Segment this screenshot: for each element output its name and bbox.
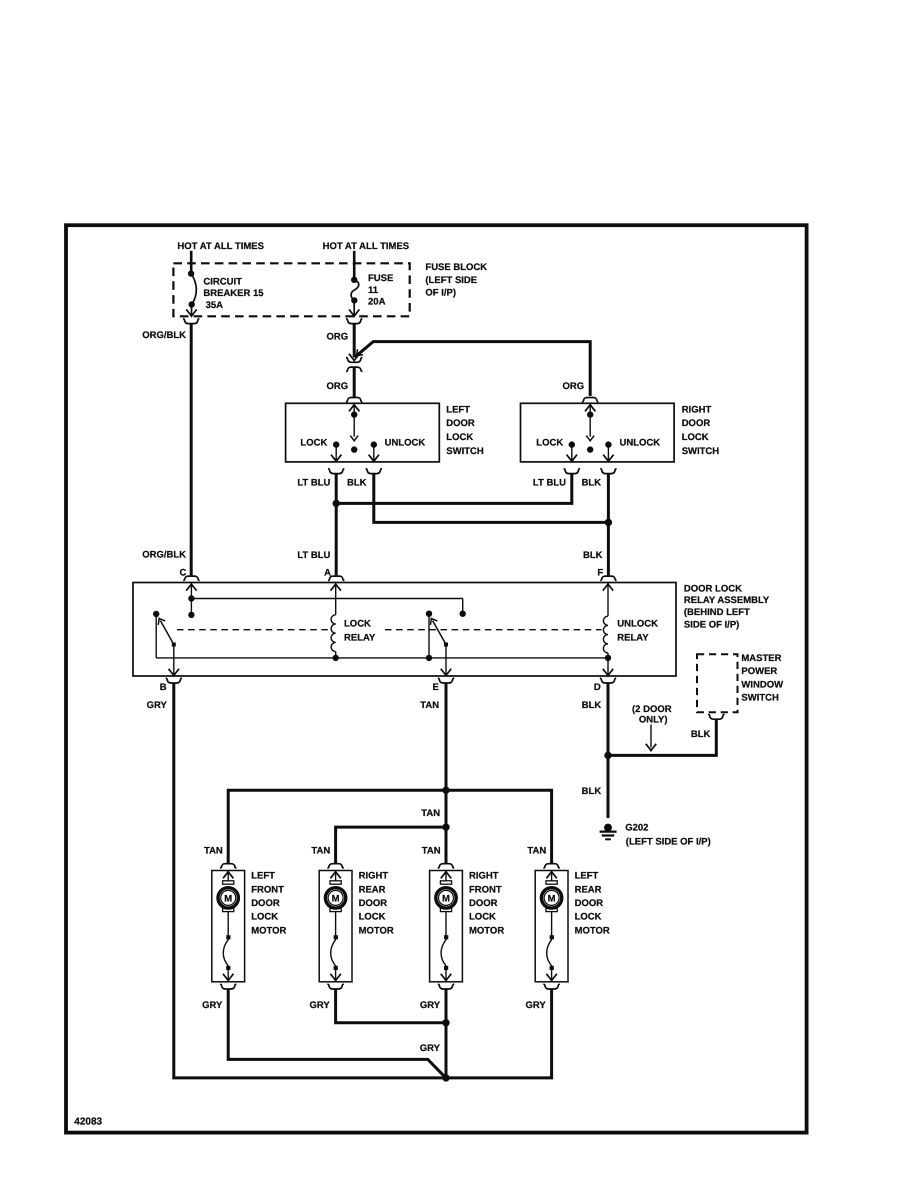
relay left switch common (153, 611, 159, 658)
wire GRY left front motor to rail (228, 989, 445, 1077)
relay pin A entry (331, 584, 341, 615)
svg-text:TAN: TAN (422, 845, 441, 856)
relay pin C entry (186, 584, 196, 602)
wire TAN rail to left front and left rear motors (228, 790, 551, 863)
wire pin C to unlock contact (191, 599, 466, 617)
junction dot TAN upper (442, 787, 449, 794)
wire ORG fuse to splice (353, 324, 356, 358)
left front door lock motor label (251, 871, 286, 937)
svg-text:FRONT: FRONT (251, 884, 284, 895)
relay pin B exit (169, 647, 179, 676)
connector below circuit breaker (183, 319, 199, 324)
svg-text:G202: G202 (625, 823, 648, 834)
svg-text:GRY: GRY (202, 1000, 223, 1011)
left rear door lock motor label (575, 871, 610, 937)
svg-text:ONLY): ONLY) (639, 714, 668, 725)
svg-text:LT BLU: LT BLU (297, 550, 330, 561)
svg-text:MOTOR: MOTOR (575, 925, 610, 936)
wire LT BLU from right switch (337, 474, 572, 504)
master power window switch dashed box (697, 654, 738, 712)
connector below pin D (600, 678, 616, 683)
svg-text:ORG: ORG (327, 332, 349, 343)
relay pin D exit (603, 658, 613, 676)
svg-text:MOTOR: MOTOR (469, 925, 504, 936)
relay internal bottom rail (156, 657, 608, 659)
svg-text:ORG/BLK: ORG/BLK (142, 330, 186, 341)
svg-text:BLK: BLK (347, 478, 367, 489)
right switch UNLOCK contact (603, 441, 613, 461)
unlock relay label (617, 618, 658, 643)
svg-text:BLK: BLK (583, 550, 603, 561)
left switch UNLOCK contact (369, 441, 379, 461)
svg-text:GRY: GRY (309, 1000, 330, 1011)
svg-text:ORG: ORG (563, 381, 585, 392)
relay pin E exit (441, 647, 451, 676)
svg-text:MASTER: MASTER (741, 653, 781, 664)
svg-text:BLK: BLK (691, 729, 711, 740)
svg-text:DOOR: DOOR (682, 418, 711, 429)
svg-text:LOCK: LOCK (344, 618, 371, 629)
svg-text:MOTOR: MOTOR (251, 925, 286, 936)
right rear door lock motor label (359, 871, 394, 937)
svg-text:GRY: GRY (420, 1043, 441, 1054)
ground G202 (600, 824, 617, 840)
connector below pin B (166, 678, 182, 683)
svg-text:RELAY: RELAY (344, 632, 376, 643)
right door lock switch label (682, 404, 720, 456)
svg-text:WINDOW: WINDOW (741, 679, 783, 690)
left door lock switch label (446, 404, 484, 456)
svg-text:LOCK: LOCK (536, 437, 563, 448)
svg-text:LOCK: LOCK (469, 912, 496, 923)
wire TAN rail to right rear motor (336, 827, 446, 863)
svg-text:RELAY ASSEMBLY: RELAY ASSEMBLY (684, 595, 770, 606)
junction dot GRY upper (442, 1019, 449, 1026)
svg-text:M: M (332, 893, 340, 904)
connector at relay pin A (328, 576, 344, 581)
svg-text:SWITCH: SWITCH (446, 446, 484, 457)
svg-text:RIGHT: RIGHT (469, 871, 499, 882)
svg-text:LEFT: LEFT (575, 871, 599, 882)
svg-text:E: E (432, 682, 438, 693)
wire GRY right front motor (445, 989, 448, 1078)
svg-text:TAN: TAN (311, 845, 330, 856)
svg-text:35A: 35A (206, 300, 224, 311)
connector below pin E (438, 678, 454, 683)
right front door lock motor label (469, 871, 504, 937)
mechanical dashed link left (177, 629, 331, 631)
stub pin C to lock contact (188, 599, 194, 619)
svg-text:FUSE: FUSE (368, 273, 393, 284)
junction dot BLK (605, 519, 612, 526)
junction dot TAN lower (442, 823, 449, 830)
svg-text:SIDE OF I/P): SIDE OF I/P) (684, 620, 739, 631)
right switch input pin (585, 405, 595, 418)
right switch LOCK contact (567, 441, 577, 461)
connector below fuse (346, 319, 362, 324)
svg-text:BREAKER 15: BREAKER 15 (203, 288, 264, 299)
right front door lock motor (430, 864, 463, 989)
svg-text:UNLOCK: UNLOCK (620, 437, 661, 448)
connector below master switch (708, 714, 724, 719)
svg-text:GRY: GRY (420, 1000, 441, 1011)
left front door lock motor (212, 864, 245, 989)
svg-text:HOT AT ALL TIMES: HOT AT ALL TIMES (323, 241, 410, 252)
svg-text:TAN: TAN (420, 700, 439, 711)
svg-text:B: B (160, 682, 167, 693)
svg-text:RELAY: RELAY (617, 632, 649, 643)
left switch input pin (349, 405, 359, 418)
fuse block label (425, 262, 487, 298)
svg-text:OF I/P): OF I/P) (425, 287, 456, 298)
svg-text:DOOR: DOOR (359, 898, 388, 909)
svg-text:BLK: BLK (582, 478, 602, 489)
svg-text:HOT AT ALL TIMES: HOT AT ALL TIMES (177, 241, 264, 252)
wire feed to circuit breaker (190, 251, 193, 272)
door lock relay assembly label (684, 583, 770, 630)
svg-text:42083: 42083 (74, 1116, 102, 1127)
connector below right switch LOCK (564, 469, 580, 474)
right door lock switch box (521, 403, 675, 462)
svg-text:BLK: BLK (582, 700, 602, 711)
relay pin F entry (603, 584, 613, 616)
inline connector upper half (346, 357, 362, 362)
svg-text:11: 11 (368, 285, 379, 296)
svg-text:M: M (442, 893, 450, 904)
svg-text:DOOR: DOOR (446, 418, 475, 429)
wire BLK right switch to relay pin F (607, 474, 610, 576)
connector at relay pin C (183, 576, 199, 581)
svg-text:TAN: TAN (204, 845, 223, 856)
right switch wiper (586, 415, 594, 453)
wire feed to fuse (353, 251, 356, 279)
wire ORG branch to right door lock switch (355, 342, 590, 396)
wire BLK master switch to ground wire (609, 719, 716, 755)
junction dot GRY lower (442, 1074, 449, 1081)
wire BLK pin D to ground (607, 683, 610, 818)
lock relay label (344, 618, 376, 643)
arrow of main wire at splice (349, 354, 359, 361)
svg-text:20A: 20A (368, 297, 386, 308)
svg-text:C: C (180, 567, 187, 578)
svg-text:A: A (324, 567, 331, 578)
svg-text:LOCK: LOCK (575, 912, 602, 923)
junction dot LT BLU (333, 500, 340, 507)
svg-text:DOOR LOCK: DOOR LOCK (684, 583, 742, 594)
svg-text:(BEHIND LEFT: (BEHIND LEFT (684, 607, 750, 618)
svg-text:BLK: BLK (582, 786, 602, 797)
svg-text:UNLOCK: UNLOCK (385, 437, 426, 448)
svg-text:REAR: REAR (359, 884, 386, 895)
connector below left switch UNLOCK (366, 469, 382, 474)
svg-text:TAN: TAN (527, 845, 546, 856)
connector below right switch UNLOCK (600, 469, 616, 474)
svg-text:LOCK: LOCK (251, 912, 278, 923)
relay right switch common (426, 611, 432, 662)
svg-text:M: M (224, 893, 232, 904)
arrow of branch wire at splice (354, 349, 363, 358)
svg-text:TAN: TAN (421, 808, 440, 819)
wire GRY pin B to bottom rail (174, 683, 446, 1078)
note pointer arrow (646, 725, 656, 751)
svg-text:RIGHT: RIGHT (682, 404, 712, 415)
left switch LOCK contact (331, 441, 341, 461)
svg-text:UNLOCK: UNLOCK (617, 618, 658, 629)
svg-text:LEFT: LEFT (446, 404, 470, 415)
wire GRY right rear motor (336, 989, 446, 1023)
page frame (66, 225, 807, 1132)
svg-text:M: M (548, 893, 556, 904)
svg-text:DOOR: DOOR (469, 898, 498, 909)
lock relay coil (331, 615, 339, 661)
svg-text:FUSE BLOCK: FUSE BLOCK (425, 262, 487, 273)
wire TAN pin E down to right front motor (445, 683, 448, 863)
svg-text:FRONT: FRONT (469, 884, 502, 895)
svg-text:ORG/BLK: ORG/BLK (142, 550, 186, 561)
svg-text:DOOR: DOOR (575, 898, 604, 909)
svg-text:SWITCH: SWITCH (741, 693, 779, 704)
door lock relay assembly box (133, 583, 676, 677)
svg-text:LOCK: LOCK (359, 912, 386, 923)
svg-text:RIGHT: RIGHT (359, 871, 389, 882)
svg-text:LT BLU: LT BLU (297, 478, 330, 489)
svg-text:CIRCUIT: CIRCUIT (203, 277, 242, 288)
wire LT BLU left switch to relay pin A (335, 474, 338, 576)
unlock relay coil (603, 616, 611, 661)
svg-text:SWITCH: SWITCH (682, 446, 720, 457)
wire ORG splice to left door lock switch (353, 368, 356, 397)
svg-text:D: D (594, 682, 601, 693)
svg-text:LOCK: LOCK (300, 437, 327, 448)
connector at relay pin F (600, 576, 616, 581)
svg-text:LOCK: LOCK (682, 432, 709, 443)
wire BLK from left switch (374, 474, 608, 523)
master power window switch label (741, 653, 783, 704)
svg-text:(LEFT SIDE: (LEFT SIDE (425, 275, 477, 286)
svg-text:F: F (597, 567, 603, 578)
relay right switch arm (428, 616, 448, 646)
fuse block dashed box (173, 263, 409, 316)
svg-text:DOOR: DOOR (251, 898, 280, 909)
fuse 11 20A (349, 273, 393, 316)
mechanical dashed link right (385, 629, 602, 631)
wire ORG/BLK breaker to relay pin C (190, 324, 193, 576)
left switch wiper (350, 415, 358, 453)
wire GRY left rear motor to rail (446, 989, 552, 1078)
inline connector lower half (346, 367, 362, 372)
svg-text:(2 DOOR: (2 DOOR (632, 704, 672, 715)
svg-text:GRY: GRY (525, 1000, 546, 1011)
svg-text:GRY: GRY (147, 700, 168, 711)
svg-text:LEFT: LEFT (251, 871, 275, 882)
connector at left switch input (346, 398, 362, 403)
circuit breaker 15 35A (186, 270, 264, 316)
svg-text:LT BLU: LT BLU (533, 478, 566, 489)
left rear door lock motor (535, 864, 568, 989)
label G202 (625, 823, 711, 848)
svg-text:MOTOR: MOTOR (359, 925, 394, 936)
relay left switch arm (156, 616, 176, 646)
right rear door lock motor (319, 864, 352, 989)
svg-text:LOCK: LOCK (446, 432, 473, 443)
svg-text:ORG: ORG (327, 381, 349, 392)
left door lock switch box (286, 403, 440, 462)
note (2 DOOR ONLY) (632, 704, 672, 726)
svg-text:POWER: POWER (741, 666, 777, 677)
connector at right switch input (582, 398, 598, 403)
connector below left switch LOCK (328, 469, 344, 474)
junction dot BLK (604, 752, 611, 759)
svg-text:REAR: REAR (575, 884, 602, 895)
svg-text:(LEFT SIDE OF I/P): (LEFT SIDE OF I/P) (626, 836, 711, 847)
